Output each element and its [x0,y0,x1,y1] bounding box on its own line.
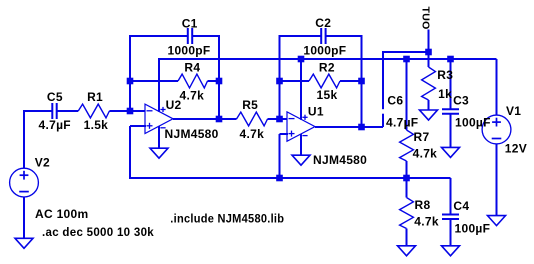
svg-text:1000pF: 1000pF [168,44,211,58]
svg-text:1000pF: 1000pF [303,44,346,58]
svg-text:4.7k: 4.7k [413,147,438,161]
svg-text:1.5k: 1.5k [84,118,109,132]
svg-text:4.7µF: 4.7µF [386,116,418,130]
svg-text:4.7µF: 4.7µF [39,118,71,132]
svg-text:R7: R7 [414,130,430,144]
svg-text:U2: U2 [166,98,182,112]
svg-text:4.7k: 4.7k [180,88,205,102]
svg-text:R1: R1 [87,90,103,104]
svg-text:C1: C1 [182,16,198,30]
svg-text:C5: C5 [47,90,63,104]
svg-text:U1: U1 [308,105,324,119]
svg-text:TUO: TUO [419,7,431,30]
svg-text:C3: C3 [453,94,469,108]
svg-text:100µF: 100µF [455,115,491,129]
svg-text:.ac dec 5000 10 30k: .ac dec 5000 10 30k [42,225,154,239]
svg-text:NJM4580: NJM4580 [313,153,367,167]
svg-text:C2: C2 [315,16,331,30]
svg-text:12V: 12V [505,141,527,155]
svg-text:1k: 1k [438,87,452,101]
svg-text:AC 100m: AC 100m [35,207,88,221]
svg-text:4.7k: 4.7k [414,214,439,228]
svg-text:V2: V2 [35,156,50,170]
svg-text:100µF: 100µF [455,222,491,236]
svg-text:V1: V1 [506,104,521,118]
svg-text:R4: R4 [184,61,200,75]
svg-text:R5: R5 [242,98,258,112]
svg-text:R2: R2 [319,60,335,74]
svg-text:C4: C4 [453,199,469,213]
svg-text:4.7k: 4.7k [240,127,265,141]
svg-text:R8: R8 [415,198,431,212]
svg-text:C6: C6 [387,94,403,108]
svg-text:R3: R3 [437,68,453,82]
svg-text:NJM4580: NJM4580 [165,127,219,141]
svg-text:.include NJM4580.lib: .include NJM4580.lib [170,211,284,225]
svg-text:15k: 15k [317,88,338,102]
